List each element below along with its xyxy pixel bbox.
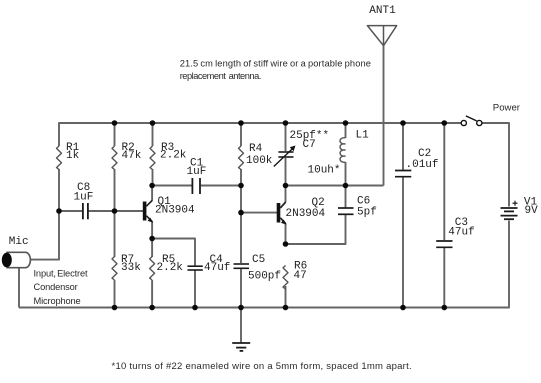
svg-text:10uh*: 10uh* bbox=[308, 164, 341, 176]
svg-text:2N3904: 2N3904 bbox=[286, 208, 326, 220]
battery V1 bbox=[501, 197, 539, 220]
wire C4 bottom bbox=[194, 271, 196, 308]
wire emitter node to C6 bottom bbox=[286, 215, 346, 244]
node Q2 base bbox=[238, 210, 244, 216]
svg-text:Condensor: Condensor bbox=[34, 282, 78, 292]
wire C2 bottom bbox=[402, 177, 404, 308]
svg-text:9V: 9V bbox=[525, 205, 539, 217]
wire top rail right of switch to battery bbox=[482, 123, 509, 207]
wire emitter node to C4 bbox=[152, 239, 195, 266]
wire C8 left bbox=[58, 210, 82, 212]
node L1 bottom bbox=[343, 183, 349, 189]
wire C8 right to Q1 base bbox=[89, 210, 144, 212]
svg-text:1k: 1k bbox=[66, 150, 80, 162]
wire C3 bottom bbox=[443, 248, 445, 308]
wire Q2 collector bbox=[285, 186, 287, 203]
wire R2 bottom / R7 top bbox=[114, 169, 116, 257]
wire C1 right to R4 node bbox=[201, 185, 241, 187]
wire R3 bottom to Q1 collector node bbox=[152, 169, 154, 186]
node Q1 collector bbox=[149, 183, 155, 189]
antenna ANT1 bbox=[367, 5, 396, 46]
node C8 left bbox=[56, 208, 62, 214]
capacitor C6 bbox=[338, 195, 377, 218]
node ground rail bbox=[238, 305, 244, 311]
node L1 top bbox=[343, 120, 349, 126]
resistor R6 bbox=[283, 260, 307, 289]
capacitor C5 bbox=[234, 254, 282, 283]
svg-text:C7: C7 bbox=[303, 139, 316, 151]
svg-text:.01uf: .01uf bbox=[406, 159, 439, 171]
wire mic bottom drop bbox=[18, 269, 20, 308]
transistor Q2 bbox=[277, 197, 326, 225]
svg-text:replacement antenna.: replacement antenna. bbox=[180, 71, 261, 81]
wire Q2 base bbox=[241, 212, 277, 214]
node C3 top bbox=[442, 120, 448, 126]
svg-text:Input, Electret: Input, Electret bbox=[34, 269, 88, 279]
node Q2 collector bbox=[283, 183, 289, 189]
svg-text:1uF: 1uF bbox=[187, 166, 207, 178]
svg-text:Mic: Mic bbox=[9, 236, 29, 248]
capacitor C2 bbox=[395, 148, 439, 177]
node C4 bottom bbox=[192, 305, 198, 311]
node C8 right bbox=[112, 208, 118, 214]
resistor R1 bbox=[57, 142, 80, 170]
variable capacitor C7 bbox=[274, 130, 329, 167]
node C2 top bbox=[400, 120, 406, 126]
svg-text:47uf: 47uf bbox=[448, 227, 474, 239]
svg-text:33k: 33k bbox=[121, 262, 141, 274]
wire Q1 emitter down bbox=[151, 222, 153, 240]
svg-text:5pf: 5pf bbox=[357, 206, 377, 218]
wire C5 top drop bbox=[240, 213, 242, 263]
node Q1 emitter bbox=[149, 236, 155, 242]
wire top rail bbox=[59, 123, 461, 146]
ground bbox=[232, 343, 250, 351]
resistor R4 bbox=[239, 143, 273, 170]
wire antenna feed bbox=[383, 45, 385, 186]
wire C2 top stub bbox=[402, 123, 404, 170]
wire C7 top stub bbox=[285, 123, 287, 151]
mic annotation bbox=[34, 269, 88, 307]
node R4 bottom bbox=[238, 183, 244, 189]
inductor L1 bbox=[308, 130, 370, 177]
wire Q1 collector bbox=[151, 186, 153, 201]
wire C1 node line left bbox=[152, 185, 191, 187]
node R7 bottom bbox=[112, 305, 118, 311]
wire R7 bottom bbox=[114, 280, 116, 308]
node C3 bottom bbox=[442, 305, 448, 311]
node C7 top bbox=[283, 120, 289, 126]
resistor R3 bbox=[150, 142, 187, 170]
wire L1 bottom stub bbox=[345, 162, 347, 186]
node R4 top bbox=[238, 120, 244, 126]
svg-text:1uF: 1uF bbox=[74, 191, 94, 203]
node Q2 emitter bbox=[283, 241, 289, 247]
wire C3 top stub bbox=[443, 123, 445, 240]
node C2 bottom bbox=[400, 305, 406, 311]
svg-text:500pf: 500pf bbox=[248, 270, 281, 282]
capacitor C1 bbox=[187, 158, 207, 195]
svg-text:2.2k: 2.2k bbox=[157, 262, 184, 274]
wire R2 top stub bbox=[114, 123, 116, 146]
resistor R2 bbox=[112, 142, 142, 170]
wire R1 bottom stub bbox=[58, 169, 60, 212]
wire C7 bottom stub bbox=[285, 158, 287, 186]
svg-text:47uf: 47uf bbox=[204, 262, 230, 274]
capacitor C3 bbox=[436, 217, 475, 248]
wire R5 bottom bbox=[151, 280, 153, 308]
svg-text:R4: R4 bbox=[249, 143, 263, 155]
svg-text:100k: 100k bbox=[246, 155, 273, 167]
switch Power bbox=[461, 102, 521, 125]
node R5 bottom bbox=[149, 305, 155, 311]
node R6 bottom bbox=[283, 305, 289, 311]
wire R5 drop bbox=[151, 239, 153, 258]
wire R4 bottom bbox=[240, 169, 242, 186]
svg-text:Power: Power bbox=[493, 102, 521, 113]
transistor Q1 bbox=[143, 196, 195, 223]
svg-text:47k: 47k bbox=[122, 150, 142, 162]
node R3 top bbox=[150, 120, 156, 126]
node R2 top bbox=[112, 120, 118, 126]
microphone Mic bbox=[2, 236, 31, 268]
svg-text:ANT1: ANT1 bbox=[369, 5, 396, 17]
wire C5 bottom to ground bbox=[240, 269, 242, 344]
wire R4 top stub bbox=[240, 123, 242, 146]
wire R4 node down to Q2 base node bbox=[240, 186, 242, 214]
wire battery bottom to rail bbox=[19, 221, 509, 308]
resistor R7 bbox=[112, 254, 141, 280]
svg-text:47: 47 bbox=[294, 270, 307, 282]
resistor R5 bbox=[150, 254, 184, 280]
wire tank bottom line bbox=[286, 185, 384, 187]
svg-text:L1: L1 bbox=[356, 130, 370, 142]
svg-text:2.2k: 2.2k bbox=[160, 150, 187, 162]
svg-text:Microphone: Microphone bbox=[34, 296, 81, 306]
svg-text:21.5 cm length of stiff wire o: 21.5 cm length of stiff wire or a portab… bbox=[180, 59, 371, 69]
svg-text:C5: C5 bbox=[252, 254, 265, 266]
capacitor C4 bbox=[188, 254, 231, 274]
wire L1 top stub bbox=[345, 123, 347, 138]
capacitor C8 bbox=[74, 182, 94, 219]
antenna annotation bbox=[180, 59, 371, 82]
wire R3 top stub bbox=[152, 123, 154, 146]
svg-text:2N3904: 2N3904 bbox=[155, 204, 195, 216]
wire mic output to C8 node bbox=[31, 211, 60, 260]
wire Q2 emitter down bbox=[285, 224, 287, 245]
wire C6 top stub bbox=[345, 186, 347, 208]
svg-text:*10 turns of #22 enameled wire: *10 turns of #22 enameled wire on a 5mm … bbox=[112, 361, 412, 372]
wire R6 bottom bbox=[285, 286, 287, 308]
